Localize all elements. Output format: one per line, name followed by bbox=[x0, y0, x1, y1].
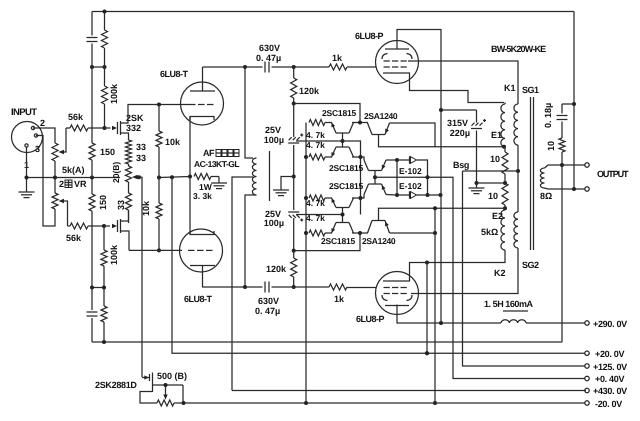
svg-text:630V: 630V bbox=[259, 43, 280, 53]
svg-text:1k: 1k bbox=[332, 53, 343, 63]
resistor 3.3k 1W cathode bbox=[194, 174, 211, 180]
tube 6LU8-T upper triode bbox=[181, 82, 224, 125]
transistor 2SA1240 lower bbox=[372, 220, 385, 222]
transistor 2SC1815 F bbox=[336, 222, 349, 224]
wire - 150 upper to bus bbox=[91, 160, 93, 178]
svg-text:E-102: E-102 bbox=[399, 181, 422, 191]
svg-text:33: 33 bbox=[136, 142, 146, 152]
wire - cap to 1k upper bbox=[272, 66, 330, 68]
capacitor 0.47u 630V upper bbox=[264, 62, 266, 73]
svg-text:10k: 10k bbox=[165, 137, 181, 147]
potentiometer VR2 5k(A) lower bbox=[52, 193, 58, 209]
svg-text:6LU8-P: 6LU8-P bbox=[355, 31, 384, 41]
node - ground tie mid bbox=[293, 145, 295, 177]
svg-text:SG2: SG2 bbox=[522, 260, 539, 270]
terminal output cold bbox=[585, 187, 589, 191]
wire - cathode down to 3.3k node bbox=[189, 117, 191, 177]
wire - B collector to C emitter bbox=[352, 157, 364, 160]
wire - 2881 source bbox=[140, 392, 157, 404]
svg-text:120k: 120k bbox=[266, 264, 287, 274]
resistor 10 zobel bbox=[561, 152, 563, 165]
ground - 3.3k bbox=[218, 177, 220, 184]
svg-text:2SK: 2SK bbox=[126, 113, 144, 123]
wire - choke bottom to lower plate line bbox=[245, 195, 257, 287]
wire - 10/10 midpoint bbox=[477, 182, 506, 184]
svg-text:6LU8-T: 6LU8-T bbox=[184, 294, 213, 304]
resistor 10k upper bbox=[158, 105, 160, 132]
svg-text:+125. 0V: +125. 0V bbox=[593, 362, 627, 372]
terminal +125V bbox=[585, 364, 589, 368]
wire - FET1 drain to triode grid bbox=[121, 105, 181, 124]
svg-text:56k: 56k bbox=[66, 233, 82, 243]
wire - lower grid line bbox=[129, 249, 182, 251]
wire - pin3 down to VR2 bottom bbox=[36, 136, 55, 227]
wire - Bsg line bbox=[463, 170, 520, 172]
svg-text:-20. 0V: -20. 0V bbox=[595, 399, 622, 409]
node - NFB divider top junction bbox=[92, 66, 105, 68]
transistor 2SA1240 upper bbox=[372, 134, 385, 136]
wire - NFB vertical right bbox=[573, 12, 575, 190]
winding secondary 8ohm bbox=[540, 168, 544, 188]
svg-text:E-102: E-102 bbox=[399, 166, 422, 176]
resistor 33 b bbox=[126, 152, 132, 164]
svg-text:315V: 315V bbox=[447, 118, 468, 128]
connector INPUT XLR bbox=[12, 122, 43, 153]
core - AF choke bbox=[269, 151, 271, 201]
wire - upper plate line bbox=[203, 66, 246, 68]
cathode bar upper triode bbox=[190, 117, 214, 121]
svg-text:K1: K1 bbox=[504, 83, 516, 93]
winding SG1 bbox=[514, 104, 518, 145]
wire - NFB line to output bbox=[92, 341, 562, 343]
svg-text:5kΩ: 5kΩ bbox=[481, 227, 498, 237]
svg-text:4. 7k: 4. 7k bbox=[306, 198, 325, 208]
core - output transformer bbox=[530, 97, 532, 250]
node E1 bbox=[502, 145, 506, 149]
wire - bottom drive to transistor bank bbox=[294, 233, 360, 251]
capacitor NFB top (unlabeled) bbox=[87, 37, 98, 39]
inductor AF choke winding bbox=[252, 158, 256, 195]
svg-text:2SC1815: 2SC1815 bbox=[322, 108, 357, 118]
svg-text:100k: 100k bbox=[109, 83, 119, 104]
wire - 20B wiper to 2SK2881 gate line bbox=[137, 175, 141, 179]
resistor 1k lower bbox=[329, 284, 347, 290]
transistor 2SC1815 B bbox=[336, 146, 349, 148]
wire - SA2 emitter to -20V rail bbox=[390, 232, 436, 234]
node - C/D base bbox=[374, 171, 376, 185]
capacitor 220u 315V bbox=[441, 109, 477, 111]
wire - screen to SG2 bbox=[411, 248, 518, 294]
potentiometer VR1 5k(A) upper bbox=[52, 143, 58, 161]
svg-text:100µ: 100µ bbox=[264, 218, 284, 228]
svg-text:100k: 100k bbox=[109, 244, 119, 265]
wire - upper plate line to choke top bbox=[243, 65, 247, 69]
resistor 4.7k no1 bbox=[309, 120, 325, 126]
resistor NFB top (unlabeled) bbox=[104, 12, 106, 31]
wire - 1k to pentode grid bbox=[347, 66, 376, 68]
svg-text:K2: K2 bbox=[494, 268, 506, 278]
svg-text:BW-5K20W-KE: BW-5K20W-KE bbox=[491, 44, 546, 54]
transistor 2SC1815 A bbox=[336, 132, 349, 134]
transistor 2SK332 JFET lower bbox=[117, 220, 119, 232]
terminal +290V bbox=[585, 321, 589, 325]
wire - FET2 drain down to grid line bbox=[121, 231, 130, 250]
ground - input bbox=[26, 178, 28, 193]
svg-text:2: 2 bbox=[40, 118, 45, 128]
resistor 4.7k no3 bbox=[309, 195, 325, 201]
resistor 10 lower bbox=[502, 183, 508, 205]
svg-text:33: 33 bbox=[136, 153, 146, 163]
svg-text:OUTPUT: OUTPUT bbox=[597, 169, 629, 179]
plate bar lower pentode bbox=[385, 305, 409, 307]
tube 6LU8-P upper pentode bbox=[376, 41, 419, 84]
svg-text:AC-13KT-GL: AC-13KT-GL bbox=[194, 159, 239, 169]
svg-text:2: 2 bbox=[59, 179, 64, 189]
transistor 2SC1815 C bbox=[369, 170, 382, 172]
ground - mid chain bbox=[273, 189, 289, 191]
svg-text:150: 150 bbox=[98, 195, 108, 210]
potentiometer 20(B) bbox=[128, 164, 130, 166]
wire - -20V line bbox=[174, 402, 586, 404]
winding K1 bbox=[501, 104, 505, 147]
svg-text:1k: 1k bbox=[334, 294, 345, 304]
terminal +20V bbox=[585, 351, 589, 355]
svg-text:100µ: 100µ bbox=[264, 135, 284, 145]
svg-text:10: 10 bbox=[488, 191, 498, 201]
svg-text:AF: AF bbox=[203, 148, 215, 158]
svg-text:6LU8-P: 6LU8-P bbox=[356, 314, 385, 324]
wire - SG2 top to Bsg bbox=[517, 171, 519, 212]
wire - lower plate line bbox=[203, 266, 246, 288]
svg-text:10: 10 bbox=[490, 154, 500, 164]
svg-text:+20. 0V: +20. 0V bbox=[595, 349, 624, 359]
node - FET1 gate bbox=[103, 126, 107, 130]
wire - VR1 bottom to bus bbox=[54, 161, 56, 178]
wire - choke center tap to +430V bbox=[232, 177, 253, 391]
svg-text:8Ω: 8Ω bbox=[540, 191, 552, 201]
svg-text:1. 5H 160mA: 1. 5H 160mA bbox=[484, 299, 534, 309]
resistor 10 upper bbox=[504, 147, 506, 152]
capacitor NFB bottom (unlabeled) bbox=[91, 288, 93, 311]
grid dashes upper triode bbox=[189, 104, 196, 106]
wire - grid to FET drain line bbox=[180, 104, 189, 106]
svg-text:3: 3 bbox=[35, 144, 40, 154]
svg-text:2SC1815: 2SC1815 bbox=[321, 236, 356, 246]
resistor 33 c lower bbox=[128, 182, 130, 193]
wire - cathode to K1 bbox=[410, 73, 505, 103]
wire - left NFB branch down bbox=[91, 12, 93, 36]
svg-text:5k(A): 5k(A) bbox=[62, 165, 85, 175]
wire - ground bus bbox=[27, 177, 121, 179]
svg-text:Bsg: Bsg bbox=[453, 160, 469, 170]
svg-text:10k: 10k bbox=[141, 200, 151, 216]
grid dashes lower triode bbox=[188, 249, 195, 251]
wire - +20V feeder down bbox=[172, 177, 586, 353]
svg-text:150: 150 bbox=[100, 147, 115, 157]
wire - bus segment to cathode node bbox=[159, 177, 190, 178]
plate bar upper triode bbox=[190, 90, 215, 92]
beam hooks upper pentode bbox=[382, 54, 388, 60]
capacitor 25V 100u lower bbox=[293, 177, 295, 211]
resistor 4.7k no4 bbox=[309, 230, 325, 236]
terminal -20V bbox=[585, 401, 589, 405]
terminal output hot bbox=[585, 163, 589, 167]
node - F collector bbox=[352, 232, 368, 234]
svg-text:4. 7k: 4. 7k bbox=[306, 213, 325, 223]
wire - FET1 source to 33 chain bbox=[121, 133, 129, 140]
resistor 120k lower bbox=[293, 251, 295, 258]
svg-text:+430. 0V: +430. 0V bbox=[593, 386, 627, 396]
svg-text:630V: 630V bbox=[258, 296, 279, 306]
svg-text:INPUT: INPUT bbox=[11, 107, 37, 118]
wire - cap1 to base drive bbox=[296, 140, 343, 142]
cathode bar lower triode bbox=[190, 231, 214, 235]
wire - driver output line to +0.40V bbox=[375, 177, 586, 378]
svg-text:0. 47µ: 0. 47µ bbox=[256, 53, 281, 63]
wire - plate to +290 rail bbox=[397, 305, 501, 324]
svg-text:500 (B): 500 (B) bbox=[157, 371, 187, 381]
wire - zobel top to NFB rail corner bbox=[562, 103, 574, 105]
wire - FET2 source up to chain bbox=[121, 210, 129, 221]
svg-text:332: 332 bbox=[126, 123, 141, 133]
resistor 150 upper bbox=[91, 67, 93, 143]
cathode bar lower pentode bbox=[383, 280, 410, 282]
svg-text:0. 18µ: 0. 18µ bbox=[543, 103, 553, 128]
wire - upper emitter line bbox=[325, 122, 332, 124]
resistor 150 lower bbox=[91, 178, 93, 195]
svg-text:SG1: SG1 bbox=[522, 85, 539, 95]
wire - E collector to D emitter bbox=[352, 195, 364, 199]
beam hooks lower pentode bbox=[382, 295, 388, 301]
svg-text:4. 7k: 4. 7k bbox=[306, 140, 325, 150]
wire - C collector to E-102 node bbox=[386, 159, 397, 161]
svg-text:20(B): 20(B) bbox=[111, 162, 121, 183]
transistor 2SC1815 D bbox=[369, 183, 382, 185]
plate top cap to rail bbox=[397, 30, 441, 324]
wire - 1k to lower pentode grid bbox=[347, 287, 376, 289]
svg-text:3. 3k: 3. 3k bbox=[193, 191, 212, 201]
tube 6LU8-T lower triode (inverted) bbox=[180, 229, 223, 272]
terminal +430V bbox=[585, 388, 589, 392]
resistor 100k (upper input grid) bbox=[104, 67, 106, 86]
wire - cap2 to base drive bbox=[296, 214, 343, 216]
wire - 2881 drain to wiper line bbox=[153, 384, 184, 386]
wire - NFB return line join bbox=[561, 165, 563, 342]
resistor 56k upper bbox=[66, 127, 70, 129]
svg-text:25V: 25V bbox=[265, 125, 281, 135]
svg-text:56k: 56k bbox=[68, 112, 84, 122]
resistor 120k upper bbox=[293, 67, 295, 78]
node - zobel junction bbox=[560, 163, 564, 167]
potentiometer 500(B) bbox=[157, 400, 174, 406]
wire - top feedback rail bbox=[92, 11, 574, 13]
grid dashes upper pentode bbox=[384, 66, 390, 68]
node - NFB lower junction bbox=[92, 287, 104, 289]
resistor 100k lower bbox=[103, 226, 105, 250]
resistor 1k upper bbox=[329, 64, 347, 70]
svg-text:4. 7k: 4. 7k bbox=[306, 130, 325, 140]
cathode bar upper pentode bbox=[383, 72, 410, 74]
node E2 bbox=[503, 206, 507, 210]
node - A collector bbox=[352, 122, 368, 124]
svg-text:+290. 0V: +290. 0V bbox=[593, 319, 627, 329]
wire - SA1 emitter to E1 bbox=[390, 123, 436, 147]
svg-text:2SK2881D: 2SK2881D bbox=[95, 380, 137, 390]
svg-text:E1: E1 bbox=[491, 130, 502, 140]
node - FET2 gate bbox=[102, 224, 106, 228]
transistor 2SK332 JFET upper bbox=[117, 122, 119, 134]
wire - lower emitter line bbox=[325, 232, 332, 234]
wire - D collector to E-102 node bbox=[386, 194, 397, 197]
capacitor 25V 100u upper bbox=[293, 104, 295, 138]
resistor 10k lower bbox=[158, 178, 160, 204]
screen dashes upper pentode bbox=[384, 60, 390, 62]
terminal +0.40V bbox=[585, 376, 589, 380]
svg-text:2SA1240: 2SA1240 bbox=[364, 111, 398, 121]
svg-text:0. 47µ: 0. 47µ bbox=[255, 306, 280, 316]
screen dashes lower pentode bbox=[384, 293, 390, 295]
ground - 315V cap / E midpoint bbox=[476, 183, 478, 188]
wire - SA1 base to E1 line bbox=[379, 135, 505, 147]
wire - SA2 base to E2 line bbox=[379, 208, 508, 220]
grid dashes lower pentode bbox=[384, 287, 390, 289]
svg-text:2SA1240: 2SA1240 bbox=[362, 236, 396, 246]
svg-text:120k: 120k bbox=[299, 86, 320, 96]
wire - screen to SG1 bbox=[408, 61, 518, 103]
svg-text:2SC1815: 2SC1815 bbox=[329, 181, 364, 191]
diode E-102 upper bbox=[395, 158, 399, 162]
svg-text:VR: VR bbox=[74, 179, 87, 189]
wire - cathode to K2 and +20V bbox=[410, 263, 428, 282]
winding K2 bbox=[501, 210, 505, 250]
svg-text:+0. 40V: +0. 40V bbox=[595, 374, 624, 384]
wire - base link upper bbox=[342, 133, 344, 147]
wire - 33 chain to FET2 bbox=[128, 210, 130, 223]
plate bar upper pentode bbox=[385, 48, 409, 50]
winding SG2 bbox=[514, 212, 518, 248]
wire - pin2 to VR1 top bbox=[33, 128, 55, 143]
capacitor 0.18u zobel bbox=[561, 122, 563, 139]
wire - pin1 to ground bus bbox=[26, 147, 28, 178]
wire - base link lower bbox=[342, 208, 344, 223]
capacitor 0.47u 630V lower bbox=[264, 282, 266, 293]
svg-text:2SC1815: 2SC1815 bbox=[329, 163, 364, 173]
inductor 1.5H 160mA choke bbox=[501, 320, 526, 323]
resistor 4.7k no2 bbox=[309, 154, 325, 160]
resistor 33 a bbox=[126, 140, 132, 152]
svg-text:33: 33 bbox=[116, 200, 126, 210]
resistor NFB bottom (unlabeled) bbox=[103, 288, 105, 307]
tube 6LU8-P lower pentode (inverted) bbox=[376, 272, 419, 315]
wire - 150 lower down to NFB cap pair bbox=[91, 211, 93, 288]
transistor 2SC1815 E bbox=[336, 207, 349, 209]
svg-text:6LU8-T: 6LU8-T bbox=[160, 69, 189, 79]
svg-text:220µ: 220µ bbox=[450, 128, 470, 138]
diode E-102 lower bbox=[395, 193, 399, 197]
wire - 100k to gate node bbox=[104, 104, 106, 128]
wire - 4.7k ladder rail bbox=[305, 123, 307, 404]
wire - top drive to transistor bank bbox=[294, 104, 360, 123]
resistor 56k lower bbox=[68, 225, 71, 227]
plate bar lower triode bbox=[190, 265, 215, 267]
svg-text:10: 10 bbox=[546, 141, 556, 151]
